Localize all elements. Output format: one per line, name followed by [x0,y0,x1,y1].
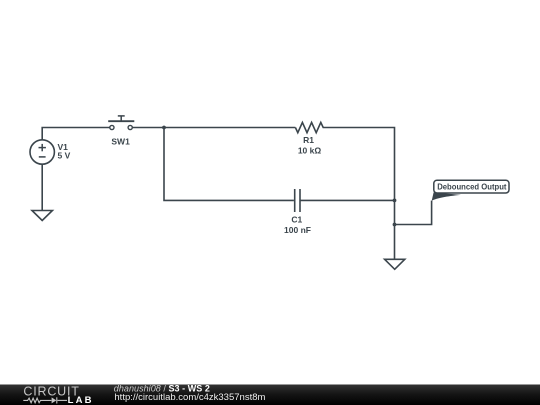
svg-text:Debounced Output: Debounced Output [437,182,506,192]
svg-text:10 kΩ: 10 kΩ [298,146,322,156]
svg-text:C1: C1 [291,214,302,224]
svg-text:5 V: 5 V [58,151,71,161]
svg-text:100 nF: 100 nF [284,225,311,235]
svg-text:LAB: LAB [68,395,94,405]
svg-text:SW1: SW1 [111,137,130,147]
svg-text:http://circuitlab.com/c4zk3357: http://circuitlab.com/c4zk3357nst8m [114,392,265,403]
svg-text:R1: R1 [303,135,314,145]
